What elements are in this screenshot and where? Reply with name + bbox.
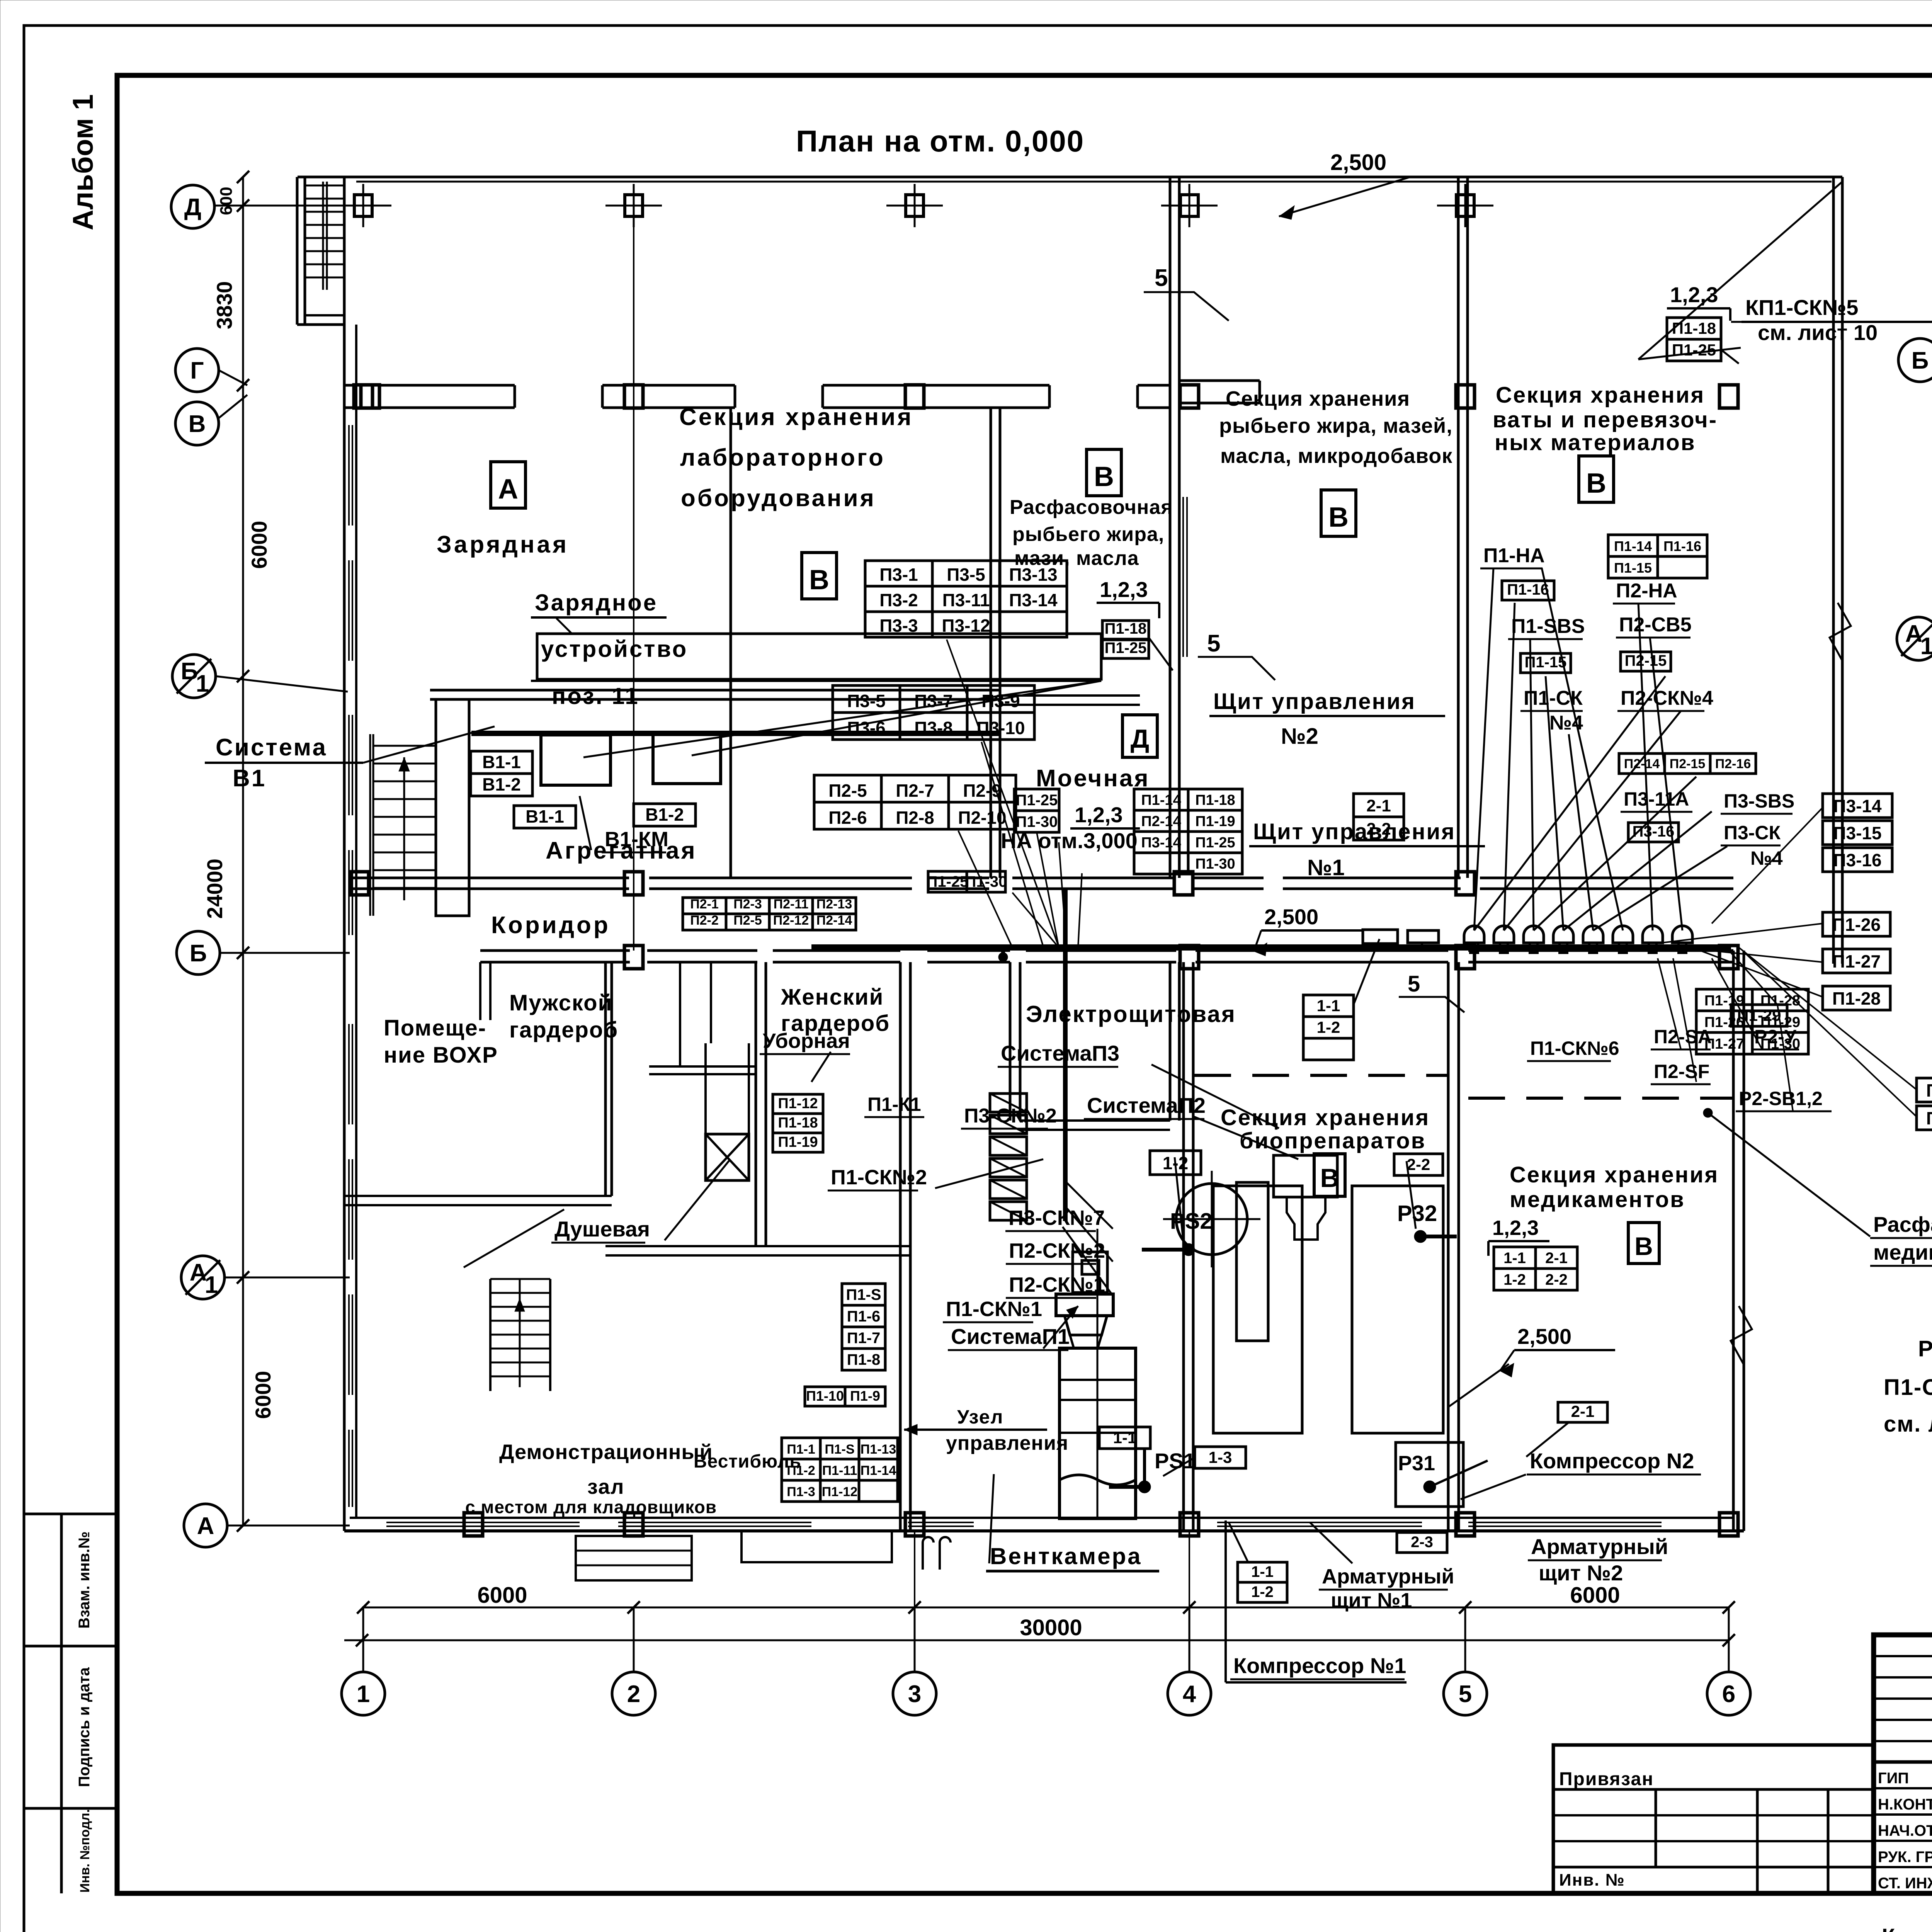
svg-text:ГИП: ГИП [1878,1770,1909,1787]
table П1-1 group [782,1438,820,1459]
stack П1-19 П1-30 right [1917,1078,1932,1102]
svg-text:П2-3: П2-3 [733,897,762,912]
wall Моечная divider [1000,694,1140,697]
svg-text:Привязан: Привязан [1559,1769,1654,1789]
grid circle Б left [177,931,220,975]
vent duct hooks [923,1537,934,1570]
svg-text:2: 2 [627,1681,640,1708]
svg-text:П2-8: П2-8 [896,808,934,828]
wall Женский гардероб right [899,962,902,1246]
svg-text:2-1: 2-1 [1366,796,1391,815]
box 2-2 P32 [1394,1154,1443,1175]
leaders P2 labels [1658,958,1681,1049]
svg-text:1-1: 1-1 [1503,1250,1526,1267]
svg-text:6000: 6000 [477,1583,527,1608]
boxes П1-18 П1-25 [1102,621,1149,639]
grid 2 axis line [633,216,634,951]
wall band Г-В segment 4 [1138,384,1170,387]
svg-text:А: А [197,1513,214,1539]
room label box В (ваты) [1579,456,1614,502]
grid 3 axis line [914,1530,915,1673]
svg-text:П1-2: П1-2 [787,1463,815,1478]
svg-text:П3-5: П3-5 [847,691,886,711]
svg-text:Женский: Женский [781,985,884,1010]
svg-text:Зарядное: Зарядное [535,590,658,616]
wall Секция лаб - Расфасовочная [990,407,992,878]
svg-text:Венткамера: Венткамера [990,1543,1142,1569]
svg-text:П1-14: П1-14 [861,1463,896,1478]
right plan grid circle Б [1898,338,1932,382]
svg-text:см. лист 10: см. лист 10 [1758,320,1878,345]
svg-text:П2-11: П2-11 [774,897,809,912]
window niche lines Секция рыбьего жира [1182,497,1184,657]
svg-text:2-3: 2-3 [1411,1534,1433,1551]
bells row (vent units) [1464,926,1484,943]
svg-text:П1-6: П1-6 [847,1308,881,1325]
svg-text:П1-30: П1-30 [965,873,1007,890]
svg-text:П2-5: П2-5 [733,913,762,928]
svg-text:6: 6 [1722,1681,1735,1708]
tank funnel [1065,1316,1107,1335]
leader Расфасовочная медикаментов [1708,1113,1870,1236]
svg-text:П2-15: П2-15 [1670,757,1706,771]
svg-text:Взам. инв.№: Взам. инв.№ [76,1531,93,1628]
svg-text:П2-SA: П2-SA [1654,1026,1712,1048]
box 1-2 PS2 [1150,1151,1201,1175]
svg-text:П1-8: П1-8 [847,1351,881,1368]
svg-text:П1-СК№2, П2-СК№1, П2-СК№2,: П1-СК№2, П2-СК№1, П2-СК№2, П3-СК№1, П3-С… [1884,1375,1932,1400]
box П2-15 [1621,652,1671,671]
grid circles 1-6 [362,1607,364,1672]
svg-text:гардероб: гардероб [781,1011,890,1036]
svg-text:П3-10: П3-10 [976,718,1025,738]
система П2 device [1274,1155,1337,1197]
svg-text:П1-SBS: П1-SBS [1511,615,1585,638]
wall гардероб area bottom [605,1245,910,1247]
svg-text:3: 3 [908,1681,921,1708]
grid circle Б1 [172,655,216,698]
svg-text:В1: В1 [233,765,266,792]
svg-text:П1-14: П1-14 [1141,792,1181,808]
svg-text:гардероб: гардероб [509,1017,618,1043]
svg-text:см. лист 10.: см. лист 10. [1884,1412,1932,1437]
svg-text:Секция хранения: Секция хранения [1226,387,1410,410]
svg-text:4: 4 [1183,1681,1196,1708]
svg-text:П1-25: П1-25 [1672,341,1716,359]
svg-text:5: 5 [1408,971,1420,997]
agregate base [1056,1294,1113,1316]
svg-text:медикаментов: медикаментов [1873,1240,1932,1264]
columns bottom wall [464,1513,483,1536]
svg-text:600: 600 [217,187,236,215]
svg-text:Расфасовочная: Расфасовочная [1010,496,1173,519]
svg-text:П3-5: П3-5 [947,565,985,585]
table П1-19 П1-28 group [1696,989,1752,1011]
wall Электрощитовая right [1169,962,1172,1121]
svg-text:Подпись и дата: Подпись и дата [76,1667,93,1787]
svg-text:управления: управления [946,1432,1068,1454]
left wall window lines [348,425,350,526]
svg-text:В: В [1634,1232,1653,1260]
svg-text:П1-30: П1-30 [1016,813,1058,830]
svg-text:П1-28: П1-28 [1832,988,1881,1009]
wall Зарядная-Секция лаб. [730,408,732,878]
table 1-1 2-1 1-2 2-2 [1494,1247,1536,1269]
svg-text:П2-1: П2-1 [690,897,719,912]
room label box В (рыбьего жира) [1321,490,1356,536]
svg-text:1-3: 1-3 [1209,1448,1232,1466]
svg-text:1-2: 1-2 [1317,1018,1340,1036]
svg-text:1-2: 1-2 [1503,1271,1526,1288]
svg-text:П2-СВ5: П2-СВ5 [1619,614,1692,636]
svg-text:П1-12: П1-12 [822,1485,858,1499]
svg-text:щит №2: щит №2 [1539,1561,1623,1585]
svg-text:рыбьего жира,: рыбьего жира, [1012,523,1164,546]
svg-text:Секция хранения: Секция хранения [1510,1162,1719,1187]
storage rack 2 [1352,1186,1443,1433]
device box В1-1 [541,735,611,785]
svg-text:Д: Д [1131,724,1149,753]
svg-text:Помеще-: Помеще- [384,1015,486,1041]
svg-text:устройство: устройство [541,636,688,662]
svg-text:Электрощитовая: Электрощитовая [1026,1001,1236,1027]
svg-text:П2-16: П2-16 [1715,757,1751,771]
wall band Г-В segment 1 [344,384,515,387]
svg-text:П1-18: П1-18 [1105,620,1147,637]
svg-text:Компрессор N2: Компрессор N2 [1530,1449,1694,1473]
svg-text:1-1: 1-1 [1113,1429,1137,1447]
svg-text:5: 5 [1155,265,1168,291]
svg-text:П2-5: П2-5 [828,781,867,801]
top-left stair bay wall [296,177,299,325]
svg-text:П1-S: П1-S [825,1442,854,1457]
svg-text:Инв. №: Инв. № [1559,1871,1625,1889]
svg-text:П2-6: П2-6 [828,808,867,828]
table П1-14 П1-16 (ваты) [1608,535,1658,556]
top exterior wall [298,176,1842,179]
svg-text:П1-25: П1-25 [1016,792,1058,809]
машина circle П1 [1176,1184,1247,1255]
svg-text:П1-16: П1-16 [1663,538,1701,554]
svg-text:6000: 6000 [1570,1583,1620,1608]
svg-text:Д: Д [184,194,201,221]
box label В1-1 under device [514,806,576,828]
svg-text:Расфасовочная: Расфасовочная [1873,1212,1932,1236]
svg-text:П1-30: П1-30 [1926,1108,1932,1128]
svg-text:П3-8: П3-8 [914,718,953,738]
svg-text:П1-7: П1-7 [847,1330,881,1347]
grid 4 axis line [1189,1530,1190,1673]
table П3-5 group [833,685,900,713]
svg-text:План на отм. 0,000: План на отм. 0,000 [796,124,1084,158]
bottom dimension line 1 [362,1607,1729,1609]
svg-text:А: А [190,1259,207,1286]
leader П1-25 stack [1037,832,1059,947]
stair treads top-left [305,185,344,187]
svg-text:поз. 11: поз. 11 [552,683,639,709]
svg-text:П2-14: П2-14 [1141,813,1181,830]
grid line Д leader [215,205,348,207]
svg-text:Р2-У: Р2-У [1754,1026,1797,1048]
svg-text:РУК. ГР.: РУК. ГР. [1878,1849,1932,1866]
right plan grid circle А1 [1897,617,1932,660]
svg-text:1-1: 1-1 [1251,1563,1274,1580]
table 2-1 2-2 [1354,794,1404,817]
svg-text:П3-6: П3-6 [847,718,886,738]
svg-text:рыбьего жира, мазей,: рыбьего жира, мазей, [1219,414,1452,437]
stair Вестибюль [490,1278,550,1280]
svg-text:В1-1: В1-1 [526,806,564,827]
svg-text:П1-10: П1-10 [806,1388,844,1404]
left margin column divider [60,1514,63,1893]
svg-text:П1-26: П1-26 [1832,915,1881,935]
svg-text:2-1: 2-1 [1545,1250,1568,1267]
svg-text:В: В [809,565,829,595]
svg-text:П1-12: П1-12 [778,1095,818,1112]
wall ВОХР right [604,962,607,1196]
svg-text:В: В [1094,461,1114,492]
svg-text:Альбом 1: Альбом 1 [67,94,99,230]
box 1-1 PS1 [1099,1427,1150,1449]
wall break mark right lower [1731,1306,1752,1364]
svg-text:1-2: 1-2 [1251,1583,1274,1600]
room label box А [491,462,526,508]
svg-text:СистемаП3: СистемаП3 [1001,1041,1119,1065]
left exterior wall [343,177,346,1531]
svg-text:№2: №2 [1281,724,1318,749]
P31 device box [1396,1442,1463,1507]
svg-text:П1-9: П1-9 [850,1388,880,1404]
svg-text:П2-SF: П2-SF [1654,1061,1709,1082]
svg-text:Г: Г [190,357,204,384]
svg-text:5: 5 [1207,630,1220,657]
table П1-14 П1-18 group [1134,789,1188,810]
svg-text:2-2: 2-2 [1366,820,1391,838]
svg-text:PS2: PS2 [1170,1209,1213,1234]
boxes П1-18 П1-25 ваты [1667,318,1721,339]
svg-text:1: 1 [357,1681,370,1708]
svg-text:П1-СК: П1-СК [1524,687,1583,709]
wall биопрепараты right [1447,962,1450,1531]
svg-text:Арматурный: Арматурный [1322,1565,1454,1588]
wall break mark right upper [1830,603,1851,661]
svg-text:СистемаП1: СистемаП1 [951,1324,1070,1349]
svg-text:2-2: 2-2 [1545,1271,1568,1288]
wall ВОХР bottom [344,1195,612,1197]
svg-text:В: В [1586,468,1606,499]
tank axis [1097,1229,1099,1519]
svg-text:Секция хранения: Секция хранения [1496,383,1705,408]
svg-text:Демонстрационный: Демонстрационный [499,1440,713,1464]
box 1-3 [1195,1447,1246,1468]
stair left mid treads [373,745,436,747]
corridor top wall [350,877,629,879]
wall Уборная-Душевая partitions [679,962,681,1066]
svg-text:Б: Б [1912,347,1929,374]
svg-text:П2-НА: П2-НА [1616,580,1677,602]
box П1-16 [1502,581,1554,600]
svg-text:П2-2: П2-2 [690,913,719,928]
svg-text:Система: Система [216,734,327,761]
svg-text:П3-3: П3-3 [879,616,918,636]
wall Секция рыбьего жира - Секция ваты [1457,177,1460,878]
svg-text:П1-18: П1-18 [778,1115,818,1131]
svg-text:Инв. №подл.: Инв. №подл. [78,1809,92,1893]
Зарядное устройство rectangle [537,634,1101,679]
tank body [1060,1348,1136,1519]
svg-text:П3-15: П3-15 [1833,823,1881,843]
title block horizontal под Межрайонное [1874,1760,1932,1764]
svg-text:П1-19: П1-19 [1926,1080,1932,1100]
bottom exterior wall [344,1529,1744,1532]
svg-text:НАЧ.ОТД.: НАЧ.ОТД. [1878,1822,1932,1839]
wall Расфасовочная - Секция рыбьего жира [1169,177,1172,878]
dashed line медикаменты [1468,1097,1733,1100]
svg-text:1: 1 [1920,633,1932,660]
svg-text:П1-1: П1-1 [787,1442,815,1457]
wall band Г-В segment 2 [602,384,735,387]
wall Вестибюль right [899,1246,902,1531]
grid circle Д [171,185,214,228]
title block small grid rows [1874,1655,1932,1657]
corridor table П2-1 group [683,898,726,914]
svg-text:П1-НА: П1-НА [1483,544,1545,567]
dashed line биопрепараты [1194,1074,1448,1077]
svg-text:П1-18: П1-18 [1672,319,1716,337]
svg-text:медикаментов: медикаментов [1510,1187,1685,1212]
svg-text:П3-14: П3-14 [1141,835,1181,851]
agregate top box [1073,1252,1107,1293]
svg-text:24000: 24000 [202,859,227,919]
svg-text:6000: 6000 [251,1371,275,1419]
svg-text:П1-19: П1-19 [1195,813,1235,830]
leader lines Зарядное устройство [583,681,1101,757]
svg-text:Разводку кабелей от соедини: Разводку кабелей от соединительных короб… [1918,1336,1932,1361]
svg-text:П3-СК№7: П3-СК№7 [1009,1206,1105,1230]
wall band Г-В segment right of Расфасовочная [1179,379,1260,382]
svg-text:П3-11: П3-11 [942,590,990,610]
svg-text:Р2-SВ1,2: Р2-SВ1,2 [1739,1088,1823,1109]
cable run Зарядная [471,731,1001,736]
wall Электрощитовая bottom [1020,1119,1170,1122]
wall band Г-В segment 3 [823,384,1049,387]
svg-text:П1-25: П1-25 [1105,639,1147,656]
label П1-29 box [1731,1005,1787,1026]
bottom bay below Венткамера [742,1531,892,1562]
svg-text:1,2,3: 1,2,3 [1075,803,1123,827]
svg-text:П1-СК№2: П1-СК№2 [831,1166,927,1189]
машина vertical vessel [1236,1182,1268,1341]
table 1-1 1-2 биопрепараты [1303,995,1354,1017]
wall Электрощитовая left [1009,962,1012,1121]
svg-text:Секция хранения: Секция хранения [679,404,913,430]
stack П1-25 П1-30 [1014,789,1059,811]
svg-text:Секция хранения: Секция хранения [1221,1105,1430,1130]
svg-text:П1-15: П1-15 [1614,560,1652,576]
stair mid arrow [403,757,405,900]
svg-text:П3-7: П3-7 [914,691,953,711]
right exterior wall lower [1732,951,1735,1531]
room label box Д (Моечная) [1122,715,1157,757]
hoist platform left of Зарядная [436,699,469,916]
svg-text:ние ВОХР: ние ВОХР [384,1043,498,1068]
appliance boxes corridor биопрепараты [1363,930,1398,944]
svg-text:П1-25: П1-25 [927,873,969,890]
box 1-1 1-2 bottom [1238,1562,1287,1582]
svg-text:П1-13: П1-13 [861,1442,896,1457]
svg-text:П2-14: П2-14 [816,913,852,928]
svg-text:Душевая: Душевая [554,1217,650,1241]
svg-text:30000: 30000 [1020,1615,1082,1640]
svg-text:П1-25: П1-25 [1195,835,1235,851]
grid circle Г [175,349,219,392]
svg-text:Щит управления: Щит управления [1213,689,1416,714]
svg-text:П1-19: П1-19 [778,1134,818,1150]
svg-text:Р31: Р31 [1398,1452,1435,1475]
svg-text:№1: №1 [1307,855,1345,880]
svg-text:мази, масла: мази, масла [1014,547,1139,570]
svg-text:СТ. ИНЖ.: СТ. ИНЖ. [1878,1875,1932,1892]
svg-text:В1-1: В1-1 [482,752,521,772]
svg-text:П2-10: П2-10 [958,808,1006,828]
title block outer [1874,1635,1932,1893]
svg-text:Коридор: Коридор [491,912,611,939]
column top-right corner [1719,385,1738,408]
svg-text:с местом для кладовщиков: с местом для кладовщиков [465,1497,717,1517]
svg-text:П2-13: П2-13 [816,897,852,912]
svg-text:П1-18: П1-18 [1195,792,1235,808]
svg-text:1,2,3: 1,2,3 [1100,577,1148,602]
label П1-12 П1-18 П1-19 stack [773,1094,823,1114]
svg-text:Б: Б [181,658,198,685]
svg-text:Б: Б [190,940,207,967]
SK riser boxes stack [990,1094,1027,1112]
svg-text:В1-2: В1-2 [645,804,684,825]
box П1-15 [1520,653,1571,673]
svg-text:ных материалов: ных материалов [1495,430,1696,455]
room label box В (медикаменты) [1628,1223,1659,1264]
bottom wall window lines [386,1522,580,1523]
svg-text:П3-1: П3-1 [879,565,918,585]
bottom dimension line 2 (30000) [344,1639,1729,1641]
svg-text:П1-К1: П1-К1 [867,1094,921,1115]
grid circle А left [184,1504,227,1547]
svg-text:2,500: 2,500 [1517,1324,1571,1349]
boxes В1-1 В1-2 stacked [471,751,532,774]
margin cell lines [24,1513,117,1515]
box 2-1 P31 [1558,1402,1607,1422]
svg-text:Компрессор №1: Компрессор №1 [1233,1653,1406,1678]
svg-text:2-2: 2-2 [1407,1155,1430,1173]
table П3-1 group [865,561,932,586]
svg-text:В: В [1320,1163,1339,1193]
svg-text:ваты и перевязоч-: ваты и перевязоч- [1493,407,1718,432]
box П3-16 [1628,823,1679,842]
svg-text:1,2,3: 1,2,3 [1670,282,1718,307]
svg-text:П2-12: П2-12 [773,913,809,928]
box label В1-2 under device [634,804,696,826]
svg-text:Узел: Узел [957,1406,1003,1428]
svg-text:А: А [498,474,518,505]
grid circle А1 left [181,1256,224,1299]
room label box В (биопрепараты) [1314,1154,1345,1196]
svg-text:В: В [189,411,206,437]
Привязан table lines [1553,1788,1874,1791]
svg-text:1: 1 [205,1272,218,1298]
Зарядная bottom wall Б1 [430,689,1000,692]
svg-text:П3-СК: П3-СК [1724,822,1781,844]
svg-text:П1-СК№6: П1-СК№6 [1530,1037,1619,1059]
